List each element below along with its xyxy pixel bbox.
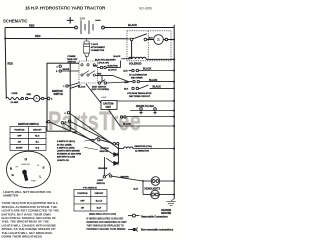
svg-text:TAKE OFF: TAKE OFF — [67, 58, 78, 61]
svg-text:WHITE: WHITE — [63, 69, 70, 71]
svg-text:ELECTRO-MAGNET: ELECTRO-MAGNET — [95, 59, 116, 62]
svg-text:ORANGE: ORANGE — [98, 167, 108, 170]
svg-text:PTO SWITCH: PTO SWITCH — [83, 187, 97, 189]
wire caution to bus — [117, 100, 174, 102]
svg-text:SWITCH: SWITCH — [100, 151, 109, 153]
svg-text:(PICK UP): (PICK UP) — [99, 62, 110, 64]
svg-text:SPARK PLUGS: SPARK PLUGS — [136, 105, 154, 108]
wire top main — [5, 27, 75, 29]
svg-text:7 SLOT: 7 SLOT — [91, 44, 99, 46]
ignition terminal L — [61, 122, 63, 124]
svg-text:5 AMPS DC (IGN): 5 AMPS DC (IGN) — [57, 146, 75, 149]
connector row switch y89 — [132, 85, 174, 90]
svg-text:FUSE: FUSE — [12, 93, 18, 95]
orange wire to light switch — [103, 157, 105, 175]
seat switch (not occupied) — [101, 76, 103, 82]
svg-text:ON: ON — [18, 142, 22, 144]
svg-text:CLUTCH: CLUTCH — [108, 70, 117, 72]
node bus y116.5 — [173, 116, 175, 118]
list leader lines — [85, 139, 92, 142]
svg-text:RED: RED — [29, 23, 35, 27]
wire to connector — [71, 122, 113, 144]
svg-text:AT ALTERNATOR: AT ALTERNATOR — [129, 73, 147, 76]
svg-text:BLACK: BLACK — [149, 79, 158, 82]
svg-text:CLUTCH: CLUTCH — [100, 148, 109, 150]
clutch coil dashes — [122, 58, 132, 59]
svg-text:Non-removable connections: Non-removable connections — [141, 229, 174, 232]
svg-text:BLACK: BLACK — [153, 86, 162, 89]
svg-text:CAUTION: CAUTION — [103, 103, 114, 106]
solenoid dashed enclosure — [127, 31, 171, 61]
svg-text:OFF: OFF — [15, 167, 18, 169]
svg-text:BLACK: BLACK — [78, 86, 86, 89]
svg-text:UNIT: UNIT — [106, 107, 112, 109]
svg-text:RED: RED — [97, 73, 102, 75]
node bus y82 — [173, 81, 175, 83]
key switch face — [7, 151, 51, 188]
svg-text:SCHEMATIC: SCHEMATIC — [3, 19, 28, 24]
svg-text:SOLENOID: SOLENOID — [129, 63, 142, 66]
wire to caution unit — [86, 84, 101, 103]
wire left vertical — [5, 28, 6, 99]
svg-text:BLACK: BLACK — [143, 68, 152, 71]
svg-text:RESISTOR (COIL): RESISTOR (COIL) — [135, 146, 153, 148]
svg-text:BLK: BLK — [123, 71, 128, 73]
node seat/diode junction — [118, 148, 120, 150]
svg-text:RUNNING AT 3600 RPM: RUNNING AT 3600 RPM — [57, 153, 81, 156]
svg-text:DOWN THEIR BRIGHTNESS: DOWN THEIR BRIGHTNESS — [2, 235, 42, 239]
connector row black y70.5 — [129, 69, 175, 71]
svg-text:SEAT SWITCH: SEAT SWITCH — [92, 85, 107, 88]
wire clips note — [87, 213, 128, 231]
electric clutch connector — [97, 61, 120, 69]
svg-text:THEY SHOULD BE REPLACED TO: THEY SHOULD BE REPLACED TO — [87, 225, 125, 228]
wire second horizontal — [5, 38, 130, 40]
node bus y89 — [173, 87, 175, 89]
svg-text:OFF: OFF — [80, 200, 85, 202]
svg-text:LIGHT: LIGHT — [97, 180, 104, 182]
svg-text:RED: RED — [73, 132, 78, 134]
headlights — [142, 180, 144, 182]
svg-text:16 H.P. HYDROSTATIC YARD TRACT: 16 H.P. HYDROSTATIC YARD TRACTOR — [25, 6, 106, 11]
svg-text:IF WIRES INSULATED CLIPS ARE: IF WIRES INSULATED CLIPS ARE — [87, 217, 124, 220]
svg-text:AMMETER: AMMETER — [22, 163, 31, 166]
wire to diode 1 — [64, 123, 114, 154]
svg-text:B+C-D: B+C-D — [96, 200, 103, 202]
node bus y126 — [173, 125, 175, 127]
svg-text:IGNITION SWITCH: IGNITION SWITCH — [18, 123, 39, 126]
svg-text:HEADLIGHTS: HEADLIGHTS — [145, 187, 161, 190]
svg-text:NO-3056: NO-3056 — [139, 7, 152, 11]
keyhole — [22, 170, 28, 181]
svg-text:B+R: B+R — [134, 188, 139, 190]
svg-text:RED: RED — [27, 94, 32, 96]
diodes — [106, 153, 118, 166]
solenoid contact switch — [130, 34, 147, 41]
svg-text:VOLTAGE REGULATOR: VOLTAGE REGULATOR — [127, 92, 152, 95]
svg-text:ELECTRIC: ELECTRIC — [108, 66, 119, 68]
solenoid coil — [129, 41, 175, 60]
svg-text:B: B — [10, 166, 12, 170]
svg-text:BLACK: BLACK — [114, 55, 122, 58]
connector row red y82 — [130, 80, 175, 82]
pto switch dashed box — [79, 61, 97, 83]
svg-text:12V: 12V — [80, 16, 86, 20]
legend removable connectors — [128, 214, 140, 217]
svg-text:REMOVED FOR SERVICING OF UNIT: REMOVED FOR SERVICING OF UNIT — [87, 222, 128, 224]
starter motor S — [154, 35, 164, 45]
svg-text:BLACK: BLACK — [123, 123, 131, 126]
caution unit box — [101, 101, 117, 110]
ammeter A — [34, 95, 40, 101]
svg-text:OFF: OFF — [17, 136, 22, 138]
svg-text:POSITION: POSITION — [14, 130, 24, 132]
wire right bus — [173, 25, 175, 199]
wire to resistor junction — [70, 113, 119, 148]
svg-text:25 VAC (AMM): 25 VAC (AMM) — [57, 143, 72, 146]
svg-text:LIGHTS WITH ENGINE: LIGHTS WITH ENGINE — [57, 151, 80, 153]
node bus-starter — [173, 39, 175, 41]
amperage list — [57, 140, 81, 162]
svg-text:CONNECTOR: CONNECTOR — [91, 50, 105, 52]
svg-text:PROPERLY SECURE YOUR WIRING: PROPERLY SECURE YOUR WIRING — [87, 229, 126, 231]
fuse holder cylinder — [84, 38, 90, 61]
chassis ground — [167, 199, 176, 206]
note lights paragraph — [3, 190, 51, 198]
svg-text:(NOT OCCUPIED): (NOT OCCUPIED) — [92, 89, 110, 91]
svg-text:BATTERY IN LINE: BATTERY IN LINE — [57, 156, 76, 159]
svg-text:SWITCH: SWITCH — [54, 93, 64, 96]
svg-text:Removable Connectors: Removable Connectors — [141, 215, 168, 218]
svg-text:S: S — [43, 166, 45, 170]
node bus y70.5 — [173, 70, 175, 72]
node bus y148.5 — [173, 148, 175, 150]
svg-text:SWITCH: SWITCH — [68, 62, 77, 64]
svg-text:CHASSIS: CHASSIS — [161, 209, 172, 212]
svg-text:M-G: M-G — [35, 136, 39, 138]
svg-text:POSITION: POSITION — [77, 193, 87, 195]
svg-text:RED: RED — [8, 62, 14, 66]
svg-text:CIRCUIT: CIRCUIT — [33, 130, 42, 132]
svg-text:M: M — [25, 157, 28, 161]
svg-text:S: S — [157, 37, 160, 42]
svg-text:B-S: B-S — [36, 148, 40, 150]
svg-text:20 AMP: 20 AMP — [11, 101, 19, 104]
legend non-removable — [128, 228, 138, 232]
light switch — [103, 173, 143, 181]
battery BT1 — [67, 17, 105, 34]
svg-text:RECTIFIER: RECTIFIER — [131, 77, 143, 79]
svg-text:BLK: BLK — [124, 88, 129, 90]
svg-text:ALTERNATOR: ALTERNATOR — [135, 150, 149, 153]
svg-text:RED: RED — [93, 65, 98, 67]
resistor coil — [124, 147, 134, 149]
svg-text:CIRCUIT: CIRCUIT — [95, 193, 104, 195]
ignition switch box — [47, 63, 70, 131]
connector pair after fuse — [21, 97, 33, 99]
svg-text:5 AMPS DC (SOL): 5 AMPS DC (SOL) — [57, 140, 75, 143]
svg-text:BROWN: BROWN — [121, 177, 130, 179]
node bus y101 — [173, 100, 175, 102]
clutch pedal switch — [92, 136, 113, 143]
svg-text:ATTACHMENT: ATTACHMENT — [91, 46, 106, 49]
svg-text:L: L — [40, 174, 42, 178]
svg-text:AMMETER: AMMETER — [3, 193, 19, 197]
svg-text:POWER: POWER — [68, 56, 76, 58]
svg-text:BLACK: BLACK — [128, 23, 137, 27]
svg-text:ON: ON — [81, 208, 85, 210]
svg-text:SWITCH: SWITCH — [97, 183, 106, 185]
wire to clutch switch — [50, 122, 92, 140]
svg-text:B+R: B+R — [97, 208, 102, 210]
svg-text:START: START — [31, 180, 36, 183]
svg-text:5 AMP: 5 AMP — [101, 96, 107, 99]
svg-text:RED: RED — [35, 34, 41, 38]
node bus-solenoid coil — [173, 58, 175, 60]
node left junction — [4, 38, 6, 40]
svg-text:WIRE INSULATED CLIPS: WIRE INSULATED CLIPS — [89, 213, 116, 216]
alternator note paragraph — [2, 201, 60, 238]
wire black y126 — [109, 110, 121, 127]
svg-text:LIGHTS ON: LIGHTS ON — [57, 160, 69, 162]
node bus y110.5 — [173, 110, 175, 112]
svg-text:RECTIFIER CIRCUIT: RECTIFIER CIRCUIT — [129, 96, 151, 98]
svg-text:START: START — [16, 147, 24, 150]
